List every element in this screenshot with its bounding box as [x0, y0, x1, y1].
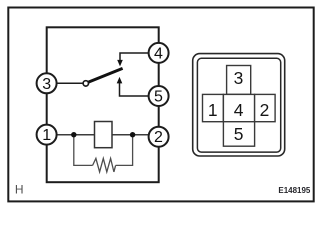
connector housing outer	[193, 54, 285, 156]
svg-text:3: 3	[42, 76, 51, 93]
svg-text:E148195: E148195	[278, 185, 310, 195]
relay outline box	[47, 27, 159, 182]
junction right	[130, 132, 135, 137]
wire from terminal 3 to switch pivot	[56, 82, 83, 84]
pin 2 cavity	[255, 94, 276, 121]
svg-text:2: 2	[260, 100, 270, 120]
svg-text:5: 5	[154, 89, 163, 106]
arrowhead toward switch (from 5)	[117, 77, 123, 84]
terminal 4	[149, 43, 169, 63]
terminal 3	[37, 73, 57, 93]
pin 1 cavity	[203, 94, 224, 121]
terminal 5	[149, 86, 169, 106]
switch pivot contact	[83, 81, 88, 86]
resistor bypass wire	[74, 137, 93, 165]
wire from terminal 1 to terminal 2	[56, 134, 149, 136]
junction left	[71, 132, 76, 137]
connector housing inner	[197, 58, 280, 152]
resistor zigzag	[93, 158, 116, 172]
svg-text:1: 1	[208, 100, 218, 120]
svg-text:4: 4	[234, 100, 244, 120]
svg-text:H: H	[15, 183, 24, 197]
svg-text:3: 3	[234, 68, 244, 88]
pin 5 cavity	[223, 122, 254, 147]
wire from terminal 4 to arrow	[120, 53, 149, 61]
terminal 2	[149, 127, 169, 147]
pin 4 cavity	[223, 94, 254, 121]
pin 3 cavity	[227, 66, 251, 95]
svg-text:4: 4	[154, 45, 163, 62]
switch arm	[88, 68, 123, 82]
resistor bypass wire right	[116, 137, 133, 165]
svg-text:5: 5	[234, 124, 244, 144]
relay coil	[95, 122, 113, 148]
arrowhead toward switch (from 4)	[117, 60, 123, 67]
svg-text:2: 2	[154, 129, 163, 146]
wire from terminal 5 to arrow	[120, 83, 149, 96]
terminal 1	[37, 125, 57, 145]
svg-text:1: 1	[42, 127, 51, 144]
